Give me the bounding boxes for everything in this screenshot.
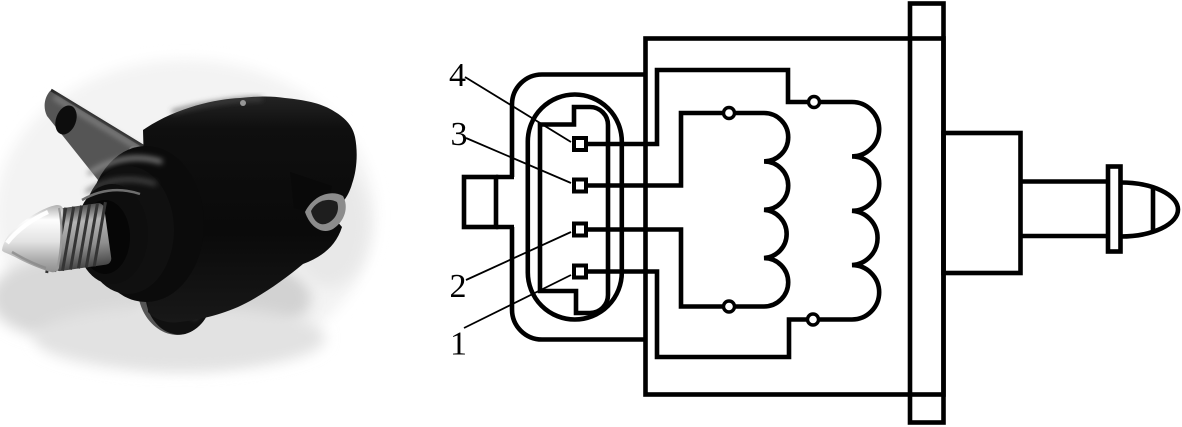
wire pin1 to right coil bottom xyxy=(588,272,852,358)
flange band silhouette xyxy=(45,91,213,335)
threaded shaft (photo) xyxy=(38,202,114,273)
bushing rectangle xyxy=(944,133,1021,273)
body top edge highlight (photo) xyxy=(172,99,262,112)
photo background wash xyxy=(0,60,375,371)
connector stadium xyxy=(528,95,622,320)
terminal node circle L1 top xyxy=(724,108,735,119)
leader line pin 4 xyxy=(465,77,571,142)
flange bottom bolt hole (photo) xyxy=(166,292,192,322)
connector keyed inner contour xyxy=(540,107,608,313)
svg-text:3: 3 xyxy=(451,116,468,153)
connector shroud opening (photo) xyxy=(290,172,332,216)
terminal node circle L2 top xyxy=(809,97,820,108)
connector key tab xyxy=(464,177,496,227)
stamp mark on flange xyxy=(130,147,139,156)
shaft bottom line xyxy=(1021,234,1109,239)
connector outer outline xyxy=(512,75,646,340)
flange band lower shading xyxy=(126,186,212,335)
flange top edge highlight band xyxy=(54,97,163,163)
wire pin3 to left coil top xyxy=(588,113,764,186)
shaft top line xyxy=(1021,179,1109,184)
valve mounting flange plate (photo) xyxy=(45,90,213,335)
pin 1 square xyxy=(574,266,586,278)
svg-text:2: 2 xyxy=(450,268,467,305)
pin 3 square xyxy=(574,180,586,192)
coil L2 (right winding) xyxy=(852,102,879,320)
terminal node circle L2 bottom xyxy=(808,314,819,325)
bearing collar rings (photo) xyxy=(88,146,204,302)
wire pin4 to right coil top xyxy=(588,70,852,144)
terminal node circle L1 bottom xyxy=(724,301,735,312)
wire pin2 to left coil bottom xyxy=(588,230,764,307)
leader line pin 2 xyxy=(466,232,571,280)
flange bottom-ear edge highlight (photo) xyxy=(194,192,208,318)
leader line pin 1 xyxy=(464,275,571,328)
main body rectangle xyxy=(646,39,944,395)
svg-text:1: 1 xyxy=(450,326,467,363)
mounting flange rectangle xyxy=(910,4,944,423)
pintle tip facet line xyxy=(1151,188,1156,232)
pintle cone tip (photo) xyxy=(2,205,63,272)
washer disc xyxy=(1108,167,1121,252)
pin 4 square xyxy=(574,138,586,150)
valve body cylinder (photo) xyxy=(143,97,357,323)
svg-text:4: 4 xyxy=(449,57,466,94)
pin 2 square xyxy=(574,224,586,236)
flange top bolt hole (photo) xyxy=(51,102,80,137)
flange top edge dark rim xyxy=(51,90,166,160)
coil L1 (left winding) xyxy=(764,113,788,307)
pintle tip xyxy=(1121,183,1179,237)
leader line pin 3 xyxy=(466,138,571,183)
